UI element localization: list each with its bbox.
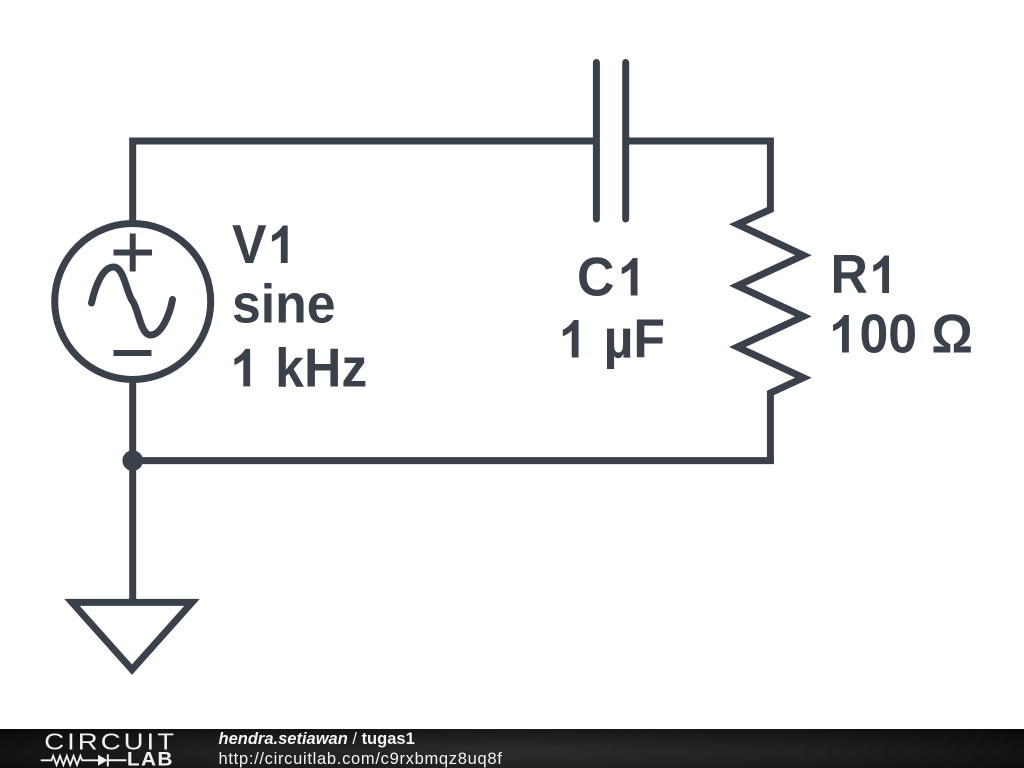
- wire top-right with resistor R1 zigzag and right vertical: [629, 141, 803, 464]
- label C1 name: [577, 247, 638, 307]
- label V1 type sine: [232, 274, 336, 334]
- node junction dot: [122, 450, 143, 471]
- footer bar: [0, 729, 1024, 768]
- CircuitLab logo CIRCUIT text: [44, 730, 177, 755]
- label V1 name: [232, 215, 288, 275]
- capacitor C1 right plate: [622, 63, 629, 220]
- capacitor C1 left plate: [593, 63, 600, 220]
- wire V1 bottom to ground: [129, 375, 136, 602]
- CircuitLab logo LAB text: [127, 749, 174, 768]
- svg-text:http://circuitlab.com/c9rxbmqz: http://circuitlab.com/c9rxbmqz8uq8f: [219, 750, 503, 768]
- label V1 value 1 kHz: [234, 338, 367, 398]
- ground symbol: [72, 602, 192, 669]
- wire top-left (C1 left plate to corner, down into V1): [133, 141, 594, 232]
- CircuitLab logo diode triangle: [98, 755, 108, 766]
- svg-text:hendra.setiawan / tugas1: hendra.setiawan / tugas1: [219, 730, 415, 748]
- CircuitLab logo resistor zigzag: [41, 756, 98, 765]
- wire bottom horizontal: [133, 457, 774, 464]
- label R1 value 100 Ohm: [833, 304, 973, 364]
- label R1 name: [831, 245, 890, 305]
- label C1 value 1 uF: [563, 309, 665, 369]
- V1 sine wave: [92, 267, 173, 335]
- voltage source V1 circle: [55, 224, 211, 380]
- V1 plus sign: [114, 234, 153, 272]
- svg-text:LAB: LAB: [127, 749, 174, 768]
- CircuitLab logo diode bar and line to LAB: [108, 754, 127, 766]
- V1 minus sign: [114, 350, 152, 356]
